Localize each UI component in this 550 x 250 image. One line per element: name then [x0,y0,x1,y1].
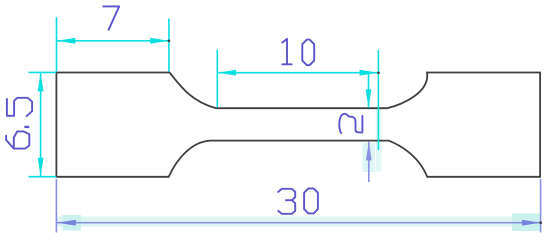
dimension 30: right extension line [540,179,542,233]
dimension 10: left arrowhead [217,70,236,76]
text 10: digit 0 [302,40,314,66]
dimension 10: right extension line [377,50,379,150]
dimension 7: dimension line [57,40,169,42]
dimension 10: defpoint dot right [377,72,380,75]
text 30: digit 3 [278,189,295,214]
dimension 6.5: top arrowhead [38,73,44,92]
dimension 7: right arrowhead [150,38,169,44]
highlight band lower part of dim 2 [363,143,376,172]
dimension 30: left extension line [55,179,57,233]
text 10: digit 1 [282,39,291,64]
dimension 2: lower arrowhead (up) [366,142,372,160]
dimension 2: upper arrowhead (down) [366,89,372,107]
digit 6 of 6.5 [6,131,29,148]
highlight band extension line right of 10 lower part [376,109,382,172]
dimension 2: lower leader line [368,142,370,182]
highlight patch right arrow of 30 [512,214,541,232]
dimension 7: left extension line [56,17,58,71]
dimension 30: left arrowhead [57,220,76,226]
wire: specimen outline [56,73,540,177]
dimension 6.5: top extension line [29,71,57,73]
text 30: digit 0 [304,188,318,213]
text 6.5 (rotated, drawn directly) [6,98,32,149]
dimension 2: upper leader line [368,74,370,108]
dimension 6.5: bottom extension line [29,176,57,178]
digit 5 of 6.5 [7,98,32,116]
dimension 30: right arrowhead [522,220,541,226]
dimension 7: defpoint dot right [168,40,171,43]
highlight patch left arrow of 30 [63,215,82,231]
dimension 6.5: dimension line [40,73,42,177]
decimal point of 6.5 [25,126,28,128]
text 7 [103,6,119,29]
dimension 30: dimension line [56,222,540,224]
dimension 10: right arrowhead [360,70,379,76]
dimension 7: right extension line [168,19,170,72]
text 2 (rotated, drawn directly) [339,114,362,133]
dimension 7: left arrowhead [57,38,76,44]
dimension 10: left extension line [216,50,218,108]
dimension 10: dimension line [217,72,378,74]
dimension 6.5: bottom arrowhead [38,158,44,177]
dimension 30: defpoint dot right [539,221,542,224]
highlight band along 30 dimension line [56,217,541,227]
